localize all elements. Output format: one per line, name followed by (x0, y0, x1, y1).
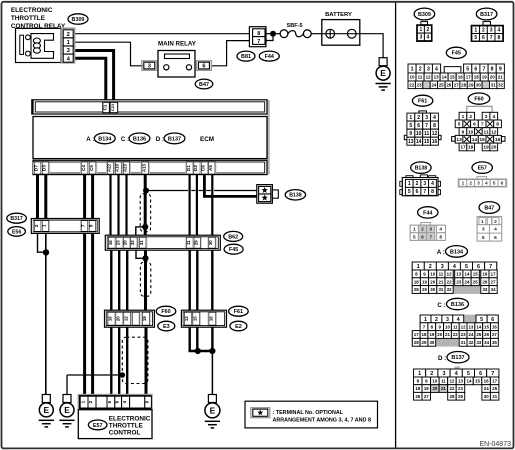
svg-text:4: 4 (453, 264, 456, 270)
svg-text:6: 6 (491, 317, 494, 323)
svg-text:ELECTRONIC: ELECTRONIC (11, 7, 53, 14)
svg-text:27: 27 (454, 82, 459, 87)
svg-text:6: 6 (416, 189, 419, 195)
svg-text:1: 1 (462, 181, 465, 187)
svg-text:B309: B309 (418, 12, 431, 18)
svg-text:E: E (380, 68, 386, 78)
svg-text:30: 30 (484, 394, 489, 399)
svg-text:6: 6 (421, 234, 424, 240)
svg-text:12: 12 (491, 129, 497, 135)
svg-text:23: 23 (456, 279, 461, 284)
svg-text:F44: F44 (265, 54, 274, 60)
svg-text:14: 14 (476, 324, 481, 329)
svg-text:CONTROL: CONTROL (109, 429, 141, 436)
svg-text:32: 32 (468, 340, 473, 345)
svg-text:A :: A : (86, 136, 94, 143)
svg-text:15: 15 (480, 137, 486, 143)
svg-text:16: 16 (492, 324, 497, 329)
svg-text:12: 12 (449, 379, 454, 384)
svg-text:F60: F60 (474, 97, 483, 103)
svg-text:34: 34 (484, 340, 489, 345)
svg-text:1: 1 (424, 317, 427, 323)
svg-text:17: 17 (491, 272, 496, 277)
svg-text:7: 7 (491, 371, 494, 377)
svg-text:F44: F44 (423, 210, 432, 216)
svg-text:D2: D2 (193, 165, 198, 171)
svg-text:5: 5 (480, 317, 483, 323)
svg-text:19: 19 (483, 145, 489, 151)
svg-text:2: 2 (421, 227, 424, 233)
svg-text:C5: C5 (89, 165, 94, 171)
svg-text:6: 6 (114, 400, 119, 403)
svg-text:10: 10 (432, 379, 437, 384)
svg-text:20: 20 (437, 332, 442, 337)
svg-text:20: 20 (490, 75, 496, 80)
svg-text:B138: B138 (289, 193, 302, 199)
svg-text:1: 1 (462, 114, 465, 120)
svg-text:27: 27 (491, 279, 496, 284)
svg-text:27: 27 (492, 332, 497, 337)
svg-text:B134: B134 (98, 136, 112, 142)
svg-text:THROTTLE: THROTTLE (109, 422, 144, 429)
svg-text:3: 3 (423, 181, 426, 187)
svg-text:25: 25 (492, 386, 497, 391)
svg-text:5: 5 (107, 400, 112, 403)
svg-text:A23: A23 (123, 163, 128, 171)
svg-text:F45: F45 (452, 51, 461, 57)
svg-text:16: 16 (482, 272, 487, 277)
svg-text:35: 35 (492, 340, 497, 345)
svg-text:EN-04873: EN-04873 (479, 441, 511, 448)
svg-text:25: 25 (439, 82, 444, 87)
svg-text:E56: E56 (12, 229, 21, 235)
svg-text:19: 19 (429, 332, 434, 337)
svg-text:8: 8 (496, 122, 499, 128)
svg-text:15: 15 (473, 272, 478, 277)
svg-text:30: 30 (429, 340, 434, 345)
svg-text:10: 10 (430, 272, 435, 277)
svg-text:19: 19 (422, 279, 427, 284)
svg-text:7: 7 (483, 66, 486, 72)
svg-text:F45: F45 (229, 247, 238, 253)
svg-text:28: 28 (414, 287, 419, 292)
svg-text:1: 1 (411, 66, 414, 72)
svg-text:10: 10 (416, 131, 422, 137)
svg-text:D7: D7 (34, 165, 39, 171)
svg-text:4: 4 (431, 181, 434, 187)
svg-text:C6: C6 (201, 165, 206, 171)
svg-text:13: 13 (458, 379, 463, 384)
svg-text:14: 14 (465, 272, 470, 277)
svg-text:6: 6 (501, 181, 504, 187)
svg-text:14: 14 (467, 379, 472, 384)
svg-text:1: 1 (413, 227, 416, 233)
svg-text:18: 18 (468, 145, 474, 151)
svg-text:16: 16 (432, 139, 438, 145)
svg-text:2: 2 (429, 264, 432, 270)
svg-text:8: 8 (257, 31, 260, 37)
svg-text:B137: B137 (451, 355, 464, 361)
svg-text:4: 4 (427, 35, 430, 41)
svg-text:17: 17 (492, 379, 497, 384)
svg-text:D :: D : (438, 355, 446, 362)
svg-text:8: 8 (431, 189, 434, 195)
svg-text:17: 17 (466, 75, 472, 80)
svg-text:11: 11 (439, 272, 444, 277)
svg-text:10: 10 (468, 129, 474, 135)
svg-text:9: 9 (144, 400, 149, 403)
svg-text:E3: E3 (163, 324, 170, 330)
svg-text:4: 4 (457, 317, 460, 323)
svg-text:2: 2 (419, 66, 422, 72)
svg-text:7: 7 (489, 264, 492, 270)
svg-text:3: 3 (427, 66, 430, 72)
svg-text:18: 18 (474, 75, 480, 80)
svg-text:6: 6 (482, 35, 485, 41)
svg-text:1: 1 (420, 27, 423, 33)
svg-text:17: 17 (414, 332, 419, 337)
svg-text:ECM: ECM (200, 136, 214, 143)
svg-text:23: 23 (115, 240, 120, 245)
svg-text:B137: B137 (168, 136, 181, 142)
svg-text:B47: B47 (199, 82, 209, 88)
svg-text:2: 2 (416, 181, 419, 187)
svg-text:27: 27 (424, 394, 429, 399)
svg-text:11: 11 (453, 324, 458, 329)
svg-text:24: 24 (469, 332, 474, 337)
svg-text:13: 13 (408, 139, 414, 145)
svg-text:12: 12 (432, 131, 438, 137)
svg-text:22: 22 (453, 332, 458, 337)
svg-text:28: 28 (461, 82, 466, 87)
svg-text:3: 3 (429, 227, 432, 233)
svg-text:4: 4 (122, 400, 127, 403)
svg-text:16: 16 (458, 75, 464, 80)
svg-text:20: 20 (491, 145, 497, 151)
svg-text:24: 24 (484, 386, 489, 391)
svg-text:1: 1 (474, 28, 477, 34)
svg-text:6: 6 (479, 371, 482, 377)
svg-text:BATTERY: BATTERY (325, 12, 352, 18)
svg-text:4: 4 (492, 114, 495, 120)
svg-text:23: 23 (458, 386, 463, 391)
svg-text:6: 6 (494, 235, 497, 241)
svg-text:4: 4 (485, 181, 488, 187)
svg-text:11: 11 (418, 75, 423, 80)
svg-text:C1: C1 (102, 104, 107, 110)
svg-text:4: 4 (433, 115, 436, 121)
svg-text:6: 6 (477, 264, 480, 270)
svg-text:1: 1 (42, 224, 47, 227)
svg-text:B317: B317 (10, 216, 23, 222)
svg-text:30: 30 (430, 287, 435, 292)
svg-text:C :: C : (121, 136, 129, 143)
svg-text:31: 31 (438, 287, 443, 292)
svg-text:24: 24 (465, 279, 470, 284)
svg-text:2: 2 (469, 181, 472, 187)
svg-text:28: 28 (450, 394, 455, 399)
svg-text:2: 2 (430, 371, 433, 377)
svg-text:34: 34 (491, 287, 496, 292)
svg-text:31: 31 (492, 394, 497, 399)
svg-text:5: 5 (458, 122, 461, 128)
svg-text:F61: F61 (418, 99, 427, 105)
svg-text:13: 13 (468, 324, 473, 329)
svg-text:31: 31 (491, 82, 496, 87)
svg-text:12: 12 (461, 324, 466, 329)
svg-text:12: 12 (123, 316, 128, 321)
svg-text:16: 16 (484, 379, 489, 384)
svg-text:6: 6 (202, 64, 205, 70)
svg-text:6: 6 (417, 123, 420, 129)
svg-text:15: 15 (192, 316, 197, 321)
svg-text:B47: B47 (484, 205, 494, 211)
svg-text:18: 18 (422, 332, 427, 337)
svg-text:A19: A19 (115, 163, 120, 171)
svg-text:3: 3 (477, 181, 480, 187)
svg-text:3: 3 (441, 264, 444, 270)
svg-text:12: 12 (426, 75, 432, 80)
svg-text:3: 3 (443, 371, 446, 377)
svg-text:23: 23 (417, 82, 422, 87)
svg-text:A13: A13 (141, 163, 146, 171)
svg-text:D3: D3 (42, 165, 47, 171)
svg-text:B309: B309 (72, 17, 85, 23)
svg-text:2: 2 (494, 219, 497, 225)
svg-text:3: 3 (148, 64, 151, 70)
svg-text:24: 24 (431, 82, 436, 87)
svg-text:32: 32 (447, 287, 452, 292)
svg-text:D1: D1 (186, 165, 191, 171)
svg-text:2: 2 (469, 114, 472, 120)
svg-text:29: 29 (469, 82, 474, 87)
svg-text:7: 7 (257, 39, 260, 45)
svg-text:31: 31 (139, 240, 144, 245)
svg-text:A22: A22 (107, 163, 112, 171)
svg-text:28: 28 (414, 340, 419, 345)
svg-text:20: 20 (430, 279, 435, 284)
svg-text:E2: E2 (235, 324, 242, 330)
svg-text:21: 21 (498, 75, 504, 80)
svg-text:4: 4 (494, 226, 497, 232)
svg-text:1: 1 (80, 400, 85, 403)
svg-text:3: 3 (485, 114, 488, 120)
svg-text:1: 1 (481, 219, 484, 225)
svg-text:15: 15 (484, 324, 489, 329)
svg-text:B317: B317 (480, 12, 493, 18)
svg-text:B136: B136 (451, 302, 464, 308)
svg-text:3: 3 (446, 317, 449, 323)
svg-text:30: 30 (476, 82, 481, 87)
svg-text:18: 18 (414, 279, 419, 284)
svg-text:10: 10 (409, 75, 415, 80)
svg-text:2: 2 (417, 115, 420, 121)
svg-text:16: 16 (108, 240, 113, 245)
svg-text:11: 11 (424, 131, 430, 137)
svg-text:E57: E57 (478, 166, 487, 172)
svg-text:7: 7 (423, 189, 426, 195)
svg-text:9: 9 (462, 129, 465, 135)
svg-text:7: 7 (429, 234, 432, 240)
svg-text:32: 32 (498, 82, 503, 87)
svg-text:11: 11 (484, 129, 489, 135)
svg-text:15: 15 (424, 139, 430, 145)
svg-text:29: 29 (422, 287, 427, 292)
svg-text:29: 29 (458, 394, 463, 399)
svg-text:8: 8 (439, 234, 442, 240)
svg-text:31: 31 (461, 340, 466, 345)
svg-text:5: 5 (482, 235, 485, 241)
svg-text:33: 33 (476, 340, 481, 345)
svg-text:7: 7 (481, 122, 484, 128)
svg-text:26: 26 (415, 394, 420, 399)
svg-text:E57: E57 (93, 423, 103, 429)
svg-text:5: 5 (467, 371, 470, 377)
svg-text:20: 20 (115, 316, 120, 321)
svg-text:19: 19 (142, 316, 147, 321)
svg-text:21: 21 (445, 332, 450, 337)
svg-text:26: 26 (482, 279, 487, 284)
svg-text:4: 4 (435, 66, 438, 72)
svg-text:32: 32 (130, 240, 135, 245)
svg-text:2: 2 (67, 32, 70, 38)
svg-text:4: 4 (498, 28, 501, 34)
svg-text:11: 11 (186, 240, 191, 245)
svg-text:13: 13 (456, 272, 461, 277)
svg-text:2: 2 (482, 28, 485, 34)
svg-text:F60: F60 (161, 309, 170, 315)
svg-text:12: 12 (447, 272, 452, 277)
svg-text:8: 8 (433, 123, 436, 129)
svg-text:16: 16 (209, 316, 214, 321)
svg-text:26: 26 (484, 332, 489, 337)
svg-text:6: 6 (473, 122, 476, 128)
svg-text:7: 7 (490, 35, 493, 41)
svg-text:MAIN RELAY: MAIN RELAY (158, 40, 197, 47)
svg-text:26: 26 (446, 82, 451, 87)
svg-text:16: 16 (495, 137, 501, 143)
svg-text:A5: A5 (208, 165, 213, 171)
svg-text:E: E (44, 405, 50, 415)
svg-text:THROTTLE: THROTTLE (11, 15, 46, 22)
svg-text:25: 25 (473, 279, 478, 284)
svg-text:20: 20 (123, 240, 128, 245)
svg-text:1: 1 (417, 264, 420, 270)
svg-text:3: 3 (490, 28, 493, 34)
svg-text:17: 17 (460, 145, 466, 151)
svg-text:13: 13 (434, 75, 440, 80)
svg-text:8: 8 (89, 224, 94, 227)
svg-text:5: 5 (465, 264, 468, 270)
svg-text:B62: B62 (228, 234, 238, 240)
svg-text:E: E (210, 405, 216, 415)
svg-text:2: 2 (88, 400, 93, 403)
svg-text:9: 9 (499, 66, 502, 72)
svg-text:8: 8 (491, 66, 494, 72)
svg-text:21: 21 (438, 279, 443, 284)
svg-text:29: 29 (422, 340, 427, 345)
svg-text:14: 14 (472, 137, 478, 143)
svg-text:A :: A : (437, 249, 445, 256)
svg-text:7: 7 (425, 123, 428, 129)
svg-text:5: 5 (466, 66, 469, 72)
svg-text:F61: F61 (234, 309, 243, 315)
svg-text:8: 8 (498, 35, 501, 41)
svg-text:3: 3 (482, 226, 485, 232)
svg-text:5: 5 (413, 234, 416, 240)
svg-text:18: 18 (415, 386, 420, 391)
svg-text:5: 5 (493, 181, 496, 187)
svg-text:16: 16 (108, 316, 113, 321)
svg-text:2: 2 (427, 27, 430, 33)
svg-text:B138: B138 (415, 166, 428, 172)
svg-text:15: 15 (475, 379, 480, 384)
svg-text:33: 33 (482, 287, 487, 292)
svg-text:22: 22 (447, 279, 452, 284)
svg-text:C4: C4 (81, 165, 86, 171)
svg-text:5: 5 (408, 189, 411, 195)
svg-text:20: 20 (432, 386, 437, 391)
svg-text:22: 22 (409, 82, 414, 87)
svg-text:4: 4 (455, 371, 458, 377)
svg-text:23: 23 (461, 332, 466, 337)
svg-text:D :: D : (156, 136, 164, 143)
svg-text:B134: B134 (450, 249, 464, 255)
svg-text:2: 2 (435, 317, 438, 323)
svg-text:13: 13 (456, 137, 462, 143)
svg-text:B81: B81 (241, 54, 251, 60)
svg-text:10: 10 (445, 324, 450, 329)
svg-text:2: 2 (34, 224, 39, 227)
svg-text:21: 21 (441, 386, 446, 391)
svg-text:: TERMINAL No. OPTIONAL: : TERMINAL No. OPTIONAL (273, 410, 344, 416)
svg-text:14: 14 (416, 139, 422, 145)
svg-text:3: 3 (425, 115, 428, 121)
svg-text:19: 19 (424, 386, 429, 391)
svg-text:6: 6 (474, 66, 477, 72)
svg-text:5: 5 (474, 35, 477, 41)
svg-text:3: 3 (420, 35, 423, 41)
svg-text:5: 5 (409, 123, 412, 129)
svg-text:ELECTRONIC: ELECTRONIC (109, 415, 151, 422)
svg-text:4: 4 (439, 227, 442, 233)
svg-text:C :: C : (437, 302, 445, 309)
svg-text:13: 13 (184, 316, 189, 321)
svg-text:1: 1 (408, 181, 411, 187)
svg-text:14: 14 (442, 75, 448, 80)
svg-text:9: 9 (409, 131, 412, 137)
svg-text:E: E (64, 405, 70, 415)
svg-text:1: 1 (409, 115, 412, 121)
svg-text:15: 15 (450, 75, 456, 80)
svg-text:19: 19 (482, 75, 488, 80)
svg-text:7: 7 (81, 224, 86, 227)
svg-text:29: 29 (193, 240, 198, 245)
svg-text:11: 11 (441, 379, 446, 384)
svg-text:22: 22 (450, 386, 455, 391)
svg-text:SBF-5: SBF-5 (287, 23, 303, 29)
svg-text:25: 25 (476, 332, 481, 337)
svg-text:1: 1 (418, 371, 421, 377)
svg-text:ARRANGEMENT AMONG 3, 4, 7 AND: ARRANGEMENT AMONG 3, 4, 7 AND 8 (273, 417, 371, 423)
svg-text:30: 30 (208, 240, 213, 245)
svg-text:B136: B136 (133, 136, 146, 142)
svg-text:C21: C21 (110, 103, 115, 111)
